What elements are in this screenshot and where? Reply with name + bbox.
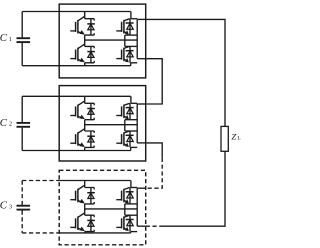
wire output A lead cell 2 (137, 103, 146, 105)
transistor Q1 (85, 19, 95, 21)
svg-text:3: 3 (9, 203, 12, 210)
wire cell3 B to load bottom (146, 225, 162, 227)
wire cell1 B to cell2 A link (146, 59, 163, 104)
transistor Q9 (85, 188, 95, 190)
wire output B lead cell 2 (137, 142, 146, 144)
diode D4 (129, 46, 131, 62)
diode D3 (90, 46, 92, 62)
transistor Q2 (131, 18, 138, 20)
diode D9 (90, 188, 92, 204)
wire collector drops cell 1 (85, 12, 131, 19)
wire output tap cell 3 (85, 208, 138, 210)
wire output tap cell 2 (85, 124, 138, 126)
wire output B lead cell 3 (137, 225, 146, 227)
capacitor C2 (21, 96, 23, 122)
wire terminal bar cell 2 (136, 104, 138, 143)
wire DC+ rail cell 3 (22, 180, 59, 182)
transistor Q11 (85, 215, 95, 217)
transistor Q4 (125, 45, 137, 47)
wire cell2 B to cell3 A link (146, 143, 163, 158)
wire collector drops cell 3 (85, 181, 131, 188)
svg-text:2: 2 (9, 121, 12, 128)
wire DC- rail cell 3 (22, 232, 59, 234)
transistor Q7 (85, 131, 95, 133)
diode D5 (90, 103, 92, 119)
transistor Q10 (131, 187, 138, 189)
svg-text:Z: Z (231, 131, 236, 141)
wire right leg midpoint cell 1 (124, 35, 126, 46)
wire right leg midpoint cell 3 (124, 204, 126, 215)
svg-text:C: C (0, 32, 8, 44)
diode D2 (129, 19, 131, 35)
wire DC- rail cell 1 (22, 65, 59, 67)
cell 2 module box (59, 86, 146, 161)
wire output B lead cell 1 (137, 58, 146, 60)
wire output tap cell 1 (85, 39, 138, 41)
diode D1 (90, 19, 92, 35)
capacitor C1 (21, 12, 23, 38)
wire right leg midpoint cell 2 (124, 120, 126, 131)
wire terminal bar cell 3 (136, 188, 138, 226)
diode D10 (129, 188, 131, 204)
wire emitter drops cell 2 (85, 147, 131, 150)
wire output A lead cell 3 (137, 187, 146, 189)
diode D7 (90, 131, 92, 147)
svg-text:L: L (237, 136, 241, 142)
wire terminal bar cell 1 (136, 19, 138, 58)
wire DC+ rail cell 1 (22, 11, 59, 13)
wire collector drops cell 2 (85, 96, 131, 103)
cell 3 module box (59, 170, 146, 245)
diode D6 (129, 103, 131, 119)
cell 1 module box (59, 4, 146, 78)
diode D8 (129, 131, 131, 147)
wire DC+ rail cell 2 (22, 95, 59, 97)
transistor Q6 (131, 102, 138, 104)
load ZL (221, 126, 228, 151)
wire emitter drops cell 3 (85, 232, 131, 233)
transistor Q12 (125, 214, 137, 216)
svg-text:1: 1 (9, 36, 12, 43)
wire left leg midpoint cell 3 (84, 204, 86, 215)
diode D12 (129, 215, 131, 231)
wire left leg midpoint cell 1 (84, 35, 86, 46)
transistor Q8 (125, 130, 137, 132)
wire DC- rail cell 2 (22, 150, 59, 152)
transistor Q3 (85, 46, 95, 48)
wire left leg midpoint cell 2 (84, 120, 86, 131)
wire cell1 A to load top (146, 19, 225, 126)
svg-text:C: C (0, 200, 8, 212)
diode D11 (90, 215, 92, 231)
wire output A lead cell 1 (137, 18, 146, 20)
transistor Q5 (85, 103, 95, 105)
wire emitter drops cell 1 (85, 63, 131, 66)
svg-text:C: C (0, 117, 8, 129)
capacitor C3 (21, 181, 23, 205)
